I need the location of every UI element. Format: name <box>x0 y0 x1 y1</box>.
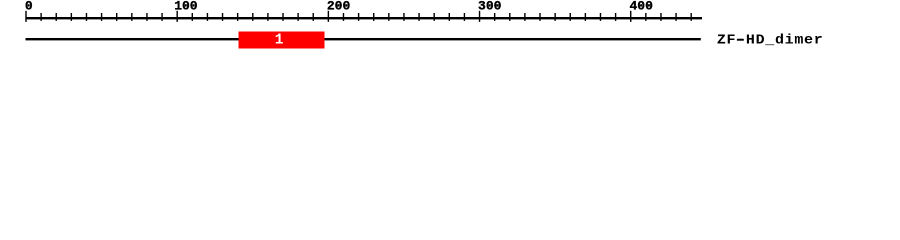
background <box>0 0 900 58</box>
hyphen widener in domain name <box>737 39 744 41</box>
zero center dots <box>28 5 30 7</box>
ruler line <box>26 17 703 19</box>
svg-text:400: 400 <box>630 0 654 14</box>
svg-text:200: 200 <box>327 0 351 14</box>
svg-text:100: 100 <box>174 0 198 14</box>
svg-text:ZF-HD_dimer: ZF-HD_dimer <box>717 33 824 48</box>
sequence line <box>26 38 701 40</box>
svg-text:300: 300 <box>478 0 502 14</box>
svg-text:1: 1 <box>275 32 284 48</box>
svg-text:0: 0 <box>25 0 33 14</box>
domain box 1 (red) <box>239 32 325 49</box>
ruler ticks every 10 residues <box>25 11 692 22</box>
